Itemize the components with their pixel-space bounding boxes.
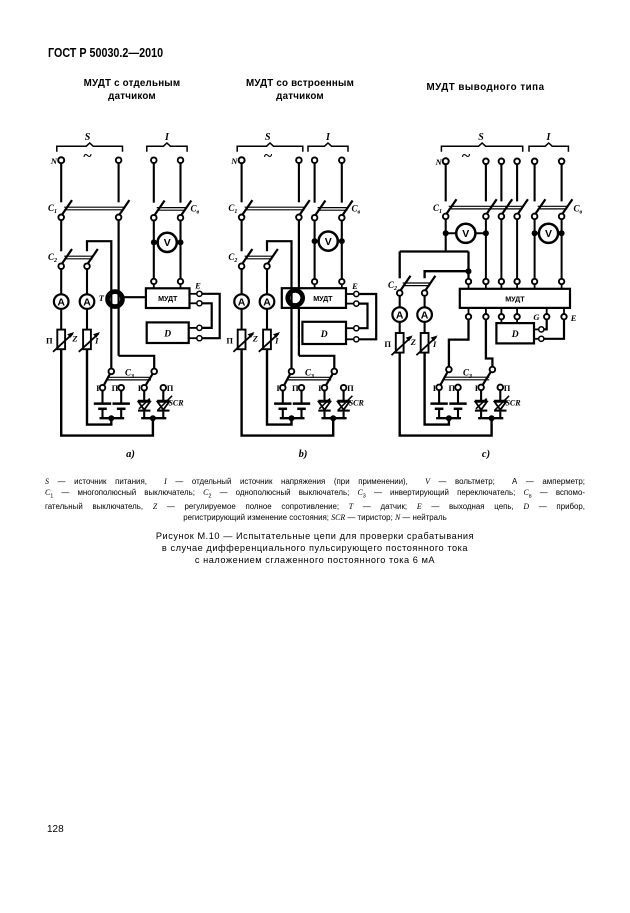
svg-text:C1: C1	[48, 203, 57, 215]
voltmeter leads	[154, 241, 181, 243]
switch C1 linkage b	[245, 206, 305, 208]
terminal E1	[197, 291, 202, 296]
wire header to C2 left c	[399, 252, 401, 279]
column title a	[62, 77, 202, 104]
svg-text:C3: C3	[125, 368, 134, 380]
thyristor lead	[343, 390, 345, 400]
wire donut lines lower	[110, 291, 112, 368]
wire thyristors bottom c	[478, 417, 503, 419]
svg-text:I: I	[94, 335, 99, 345]
terminal S2 c	[483, 159, 489, 165]
thyristor triangle	[475, 402, 487, 410]
thyristor gate	[139, 399, 150, 409]
resistor Z left	[57, 330, 65, 350]
wire C2 right to ammeter c	[424, 296, 426, 308]
svg-text:S: S	[85, 132, 91, 143]
source S bracket b	[237, 143, 303, 152]
wire resistor P bottom run b	[242, 349, 334, 435]
switch pole contact	[116, 215, 122, 221]
svg-text:Cв: Cв	[574, 203, 583, 215]
page number	[47, 824, 64, 835]
wire N below C1 c	[445, 219, 447, 252]
terminal I2 b	[339, 157, 345, 163]
cell lead	[120, 410, 122, 418]
wire A2 to resistor c	[424, 322, 426, 333]
cell long plate	[430, 402, 447, 405]
switch pole blade	[500, 199, 513, 217]
switch pole blade	[117, 200, 130, 218]
switch pole blade	[313, 201, 326, 219]
switch pole contact	[514, 214, 520, 220]
svg-text:C3: C3	[305, 368, 314, 380]
node thyristor junction c	[489, 415, 495, 421]
wire line2 down c	[485, 219, 487, 279]
switch pole blade	[340, 201, 353, 219]
thyristor lead	[323, 390, 325, 400]
cell lead	[438, 410, 440, 418]
terminal MUDT input 1	[151, 279, 156, 284]
wire line3 down c	[500, 219, 502, 279]
voltmeter V right c	[539, 224, 558, 243]
terminal contact I left	[100, 385, 106, 391]
wire I1 to Cn b	[314, 163, 316, 203]
wire D stub 2	[189, 337, 197, 339]
node thyristor junction b	[330, 415, 336, 421]
svg-text:с): с)	[482, 449, 490, 460]
wire I2 to Cn	[179, 163, 181, 203]
wire to C1 c	[485, 164, 487, 201]
switch C3 blade right b	[325, 369, 336, 387]
terminal D1	[197, 325, 202, 330]
voltmeter S leads c	[446, 232, 486, 234]
thyristor triangle	[319, 402, 331, 410]
terminal contact P right c	[498, 385, 504, 391]
sensor donut inside box b	[288, 290, 303, 305]
cell lead	[300, 410, 302, 418]
resistor Z right	[83, 330, 91, 350]
cell long plate	[449, 402, 466, 405]
wire ammeter A2 to resistor	[86, 309, 88, 330]
cell lead	[282, 410, 284, 418]
thyristor anode bar	[157, 400, 169, 402]
svg-text:МУДТ: МУДТ	[158, 294, 178, 303]
svg-text:I: I	[432, 339, 437, 349]
thyristor lead	[323, 412, 325, 419]
thyristor gate	[495, 396, 509, 410]
switch pole blade	[265, 249, 278, 267]
wire resistor I to cells junction b	[267, 349, 292, 424]
thyristor cathode bar	[337, 410, 349, 412]
terminal N	[58, 157, 64, 163]
voltmeter V b	[319, 232, 338, 251]
svg-text:N: N	[435, 157, 443, 167]
svg-text:S: S	[478, 132, 484, 143]
thyristor triangle	[158, 402, 170, 410]
thyristor lead	[162, 390, 164, 400]
terminal C3 top right b	[332, 369, 338, 375]
svg-text:Cв: Cв	[191, 203, 200, 215]
switch C2 linkage c	[403, 282, 430, 284]
switch Cn linkage b	[318, 207, 348, 209]
wire E stub 1	[190, 293, 197, 295]
svg-text:b): b)	[299, 449, 308, 460]
terminal C3 top right	[151, 369, 157, 375]
svg-text:D: D	[511, 330, 519, 340]
wire C2 left to ammeter c	[399, 296, 401, 308]
voltmeter leads b	[315, 240, 342, 242]
terminal contact I right	[141, 385, 147, 391]
node voltmeter right	[178, 239, 184, 245]
svg-text:П: П	[226, 335, 233, 345]
wire term2 to C3 right c	[486, 319, 493, 368]
terminals above MUDT c	[466, 279, 471, 284]
switch C3 blade left c	[439, 368, 450, 388]
wire term3 to D c	[500, 319, 502, 323]
MUDT box	[146, 288, 190, 308]
switch pole contact	[499, 214, 505, 220]
switch C3 blade right c	[481, 368, 493, 388]
terminal MUDT in2 b	[339, 279, 344, 284]
node cells junction	[108, 415, 114, 421]
svg-text:C1: C1	[433, 203, 442, 215]
terminal E2 b	[354, 301, 359, 306]
switch pole contact	[239, 215, 245, 221]
wire A1 to resistor c	[399, 322, 401, 333]
svg-text:V: V	[545, 228, 552, 240]
wire sensor to MUDT box	[123, 296, 146, 298]
node header junction c	[466, 268, 472, 274]
wire C2 right to ammeter	[86, 269, 88, 295]
svg-text:I: I	[325, 132, 331, 143]
switch pole contact	[58, 215, 64, 221]
switch C2 linkage	[64, 255, 92, 257]
switch pole contact	[84, 263, 90, 269]
wire resistor I to cells junction	[87, 349, 111, 424]
wire junction to C2 right c	[425, 271, 469, 278]
legend	[45, 477, 585, 523]
cell short plate	[454, 408, 463, 411]
terminal C3 top right c	[490, 367, 496, 373]
switch pole blade	[533, 199, 546, 217]
figure caption	[45, 530, 585, 567]
svg-text:П: П	[347, 383, 354, 393]
thyristor lead	[343, 412, 345, 419]
switch C3 linkage c	[444, 376, 489, 378]
wire I2 to Cn c	[561, 164, 563, 201]
switch C2 linkage b	[245, 255, 273, 257]
wire term1 to C3 left c	[449, 319, 469, 368]
svg-text:A: A	[57, 297, 65, 309]
switch C3 blade left b	[283, 369, 293, 387]
cell lead	[300, 390, 302, 403]
cell short plate	[98, 408, 107, 411]
wire Cn to V line2 b	[341, 220, 343, 279]
wire to C1 c	[500, 164, 502, 201]
terminal MUDT input 2	[178, 279, 183, 284]
source I bracket	[147, 143, 187, 152]
source I bracket c	[529, 143, 568, 152]
wire N to C1	[60, 163, 62, 202]
ammeter A1 c	[392, 307, 407, 322]
resistor Z right c	[421, 333, 429, 353]
terminal contact P right b	[341, 385, 347, 391]
node thyristor junction	[150, 415, 156, 421]
wire box line to C3 right b	[299, 356, 334, 369]
wire A2 to resistor b	[266, 309, 268, 330]
switch C3 blade right	[144, 369, 155, 387]
switch pole contact	[397, 290, 403, 296]
switch pole contact	[239, 263, 245, 269]
wire D stub1 c	[534, 328, 539, 330]
thyristor triangle	[338, 402, 350, 410]
svg-text:Z: Z	[252, 334, 258, 344]
D box b	[302, 322, 346, 344]
svg-text:E: E	[194, 281, 201, 291]
cell lead	[101, 390, 103, 403]
wire I lines down c	[534, 219, 536, 279]
wire Cn to voltmeter line 1	[153, 220, 155, 279]
switch pole blade	[179, 201, 192, 219]
svg-text:I: I	[546, 132, 552, 143]
cell short plate	[297, 408, 306, 411]
thyristor lead	[480, 390, 482, 400]
terminal contact I right b	[322, 385, 328, 391]
svg-text:C3: C3	[463, 368, 472, 380]
wire E2 to D1 inner b	[359, 304, 368, 329]
svg-text:I: I	[164, 132, 170, 143]
thyristor anode bar	[475, 400, 487, 402]
cell short plate	[435, 408, 444, 411]
header: document number	[48, 46, 163, 60]
ammeter A2 c	[417, 307, 432, 322]
svg-text:V: V	[325, 236, 332, 248]
svg-text:C2: C2	[228, 252, 237, 264]
wire E1 to D2 outer loop	[202, 294, 220, 338]
terminal D2	[197, 336, 202, 341]
resistor Z left c	[396, 333, 404, 353]
terminal D1 b	[354, 326, 359, 331]
cell long plate	[274, 402, 291, 405]
svg-text:П: П	[504, 383, 511, 393]
thyristor cathode bar	[494, 410, 506, 412]
switch C3 blade left	[103, 369, 113, 387]
terminal MUDT in1 b	[312, 279, 317, 284]
svg-text:~: ~	[83, 148, 92, 165]
voltmeter V left c	[456, 224, 475, 243]
wire C2 right pole riser	[87, 241, 111, 291]
svg-text:T: T	[99, 293, 105, 303]
svg-text:I: I	[274, 335, 279, 345]
terminal N b	[239, 157, 245, 163]
svg-text:D: D	[320, 330, 328, 340]
switch C3 linkage b	[287, 376, 331, 378]
resistor Z right b	[263, 330, 271, 350]
switch Cn linkage	[157, 207, 186, 209]
svg-text:МУДТ: МУДТ	[313, 294, 333, 303]
svg-text:SCR: SCR	[349, 399, 365, 408]
wire E1 to D2 outer b	[359, 294, 376, 339]
switch pole blade	[59, 200, 72, 218]
wire D stub2 c	[534, 338, 539, 340]
wire E2 to D1 inner loop	[202, 303, 212, 328]
wire A1 to resistor b	[241, 309, 243, 330]
thyristor cathode bar	[157, 410, 169, 412]
switch Cn linkage c	[538, 205, 568, 207]
wire C2 right to ammeter b	[266, 269, 268, 295]
terminal E2	[197, 301, 202, 306]
terminal contact P left c	[455, 385, 461, 391]
wire N to C2 header c	[400, 250, 469, 252]
thyristor triangle	[495, 402, 507, 410]
sensor T donut	[108, 292, 123, 307]
node V I right c	[559, 230, 565, 236]
thyristor triangle	[138, 402, 150, 410]
thyristor gate	[476, 399, 487, 409]
thyristor lead	[162, 412, 164, 419]
wire S2 to C1	[118, 163, 120, 202]
switch pole contact	[339, 215, 345, 221]
wire C1 to C2	[60, 220, 62, 252]
terminal C3 top left c	[446, 367, 452, 373]
cell long plate	[113, 402, 130, 405]
switch C3 linkage	[107, 376, 151, 378]
column title c	[415, 81, 556, 94]
wire D stub 1	[189, 327, 197, 329]
svg-text:Z: Z	[71, 334, 77, 344]
node cells junction c	[446, 415, 452, 421]
ammeter A2	[80, 294, 95, 309]
voltmeter V	[158, 233, 177, 252]
wire D stub2 b	[346, 338, 354, 340]
wire to C1 c	[445, 164, 447, 201]
thyristor cathode bar	[318, 410, 330, 412]
wire C2 right riser b	[267, 241, 292, 288]
switch pole contact	[151, 215, 157, 221]
svg-text:~: ~	[462, 148, 471, 165]
source S bracket c	[441, 143, 522, 152]
wire S2 down through box b	[298, 220, 300, 356]
svg-text:C2: C2	[388, 280, 397, 292]
svg-text:G: G	[533, 312, 540, 322]
column title b	[230, 77, 370, 104]
svg-text:а): а)	[126, 449, 135, 460]
svg-text:A: A	[263, 297, 271, 309]
svg-text:A: A	[421, 310, 429, 322]
switch pole blade	[240, 249, 253, 267]
thyristor gate	[338, 396, 352, 410]
MUDT box b	[282, 288, 346, 308]
svg-text:N: N	[50, 156, 58, 166]
svg-text:Cв: Cв	[352, 203, 361, 215]
svg-text:П: П	[167, 383, 174, 393]
switch pole contact	[443, 214, 449, 220]
cell lead	[101, 410, 103, 418]
cell long plate	[94, 402, 111, 405]
svg-text:N: N	[230, 156, 238, 166]
switch pole blade	[423, 276, 436, 294]
wire E stub 2	[190, 302, 197, 304]
thyristor lead	[499, 390, 501, 400]
terminal I line 1	[151, 157, 157, 163]
switch pole contact	[559, 214, 565, 220]
terminal contact P right	[161, 385, 167, 391]
terminal D2 c	[539, 336, 544, 341]
terminal S3 c	[499, 159, 505, 165]
wire C2 left to ammeter b	[241, 269, 243, 295]
svg-text:SCR: SCR	[505, 399, 521, 408]
terminal contact I left c	[436, 385, 442, 391]
thyristor gate	[319, 399, 330, 409]
terminal E1 b	[354, 291, 359, 296]
MUDT box c	[460, 289, 570, 308]
svg-text:V: V	[164, 237, 171, 249]
svg-text:A: A	[396, 310, 404, 322]
svg-text:D: D	[163, 330, 171, 340]
switch pole contact	[296, 215, 302, 221]
wire term4 to D c	[516, 319, 518, 323]
wire S2 down through sensor	[117, 220, 119, 356]
switch pole blade	[560, 199, 573, 217]
terminal S line 2	[116, 157, 122, 163]
node V I left c	[532, 230, 538, 236]
cell lead	[120, 390, 122, 403]
switch pole blade	[59, 249, 72, 267]
terminal S4 c	[514, 159, 520, 165]
switch pole blade	[297, 200, 310, 218]
D box	[147, 322, 189, 343]
terminal C3 top left	[109, 369, 115, 375]
svg-text:~: ~	[264, 148, 273, 165]
thyristor gate	[158, 396, 172, 410]
switch pole blade	[85, 249, 98, 267]
terminal contact P left	[118, 385, 124, 391]
wire ammeter A1 to resistor	[60, 309, 62, 330]
wire E stub1 b	[346, 293, 354, 295]
wire D stub1 b	[346, 327, 354, 329]
voltmeter I leads c	[535, 232, 562, 234]
terminal contact I right c	[478, 385, 484, 391]
wire cells bottom c	[436, 417, 461, 419]
node V S left c	[443, 230, 449, 236]
terminal D2 b	[354, 337, 359, 342]
D box c	[496, 323, 534, 343]
svg-text:A: A	[83, 297, 91, 309]
thyristor anode bar	[494, 400, 506, 402]
thyristor lead	[143, 390, 145, 400]
svg-text:C1: C1	[228, 203, 237, 215]
wire header right down to box c	[467, 252, 469, 279]
terminal C3 top left b	[289, 369, 295, 375]
source S bracket	[57, 143, 123, 152]
switch C1 linkage c	[449, 205, 523, 207]
resistor Z left b	[238, 330, 246, 350]
switch pole contact	[178, 215, 184, 221]
wire G to D1 c	[544, 319, 547, 329]
svg-text:E: E	[351, 281, 358, 291]
switch pole contact	[58, 263, 64, 269]
switch pole contact	[483, 214, 489, 220]
terminals below MUDT c	[468, 308, 470, 314]
thyristor lead	[143, 412, 145, 419]
cell short plate	[117, 408, 126, 411]
switch pole contact	[264, 263, 270, 269]
node V S right c	[483, 230, 489, 236]
wire I2 to Cn b	[341, 163, 343, 203]
svg-text:П: П	[384, 339, 391, 349]
wire thyristors bottom b	[322, 417, 347, 419]
thyristor anode bar	[318, 400, 330, 402]
svg-text:Z: Z	[410, 337, 416, 347]
